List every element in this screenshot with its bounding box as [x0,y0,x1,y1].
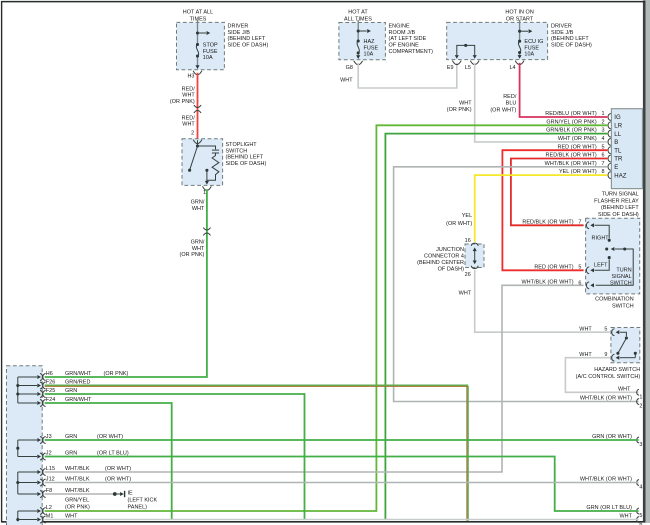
wire: WHT/BLK F8 to ground IE [45,493,114,495]
svg-text:DRIVER: DRIVER [228,24,249,30]
svg-text:COMPARTMENT): COMPARTMENT) [389,49,434,55]
svg-text:GRN (OR WHT): GRN (OR WHT) [592,434,632,440]
svg-text:(OR WHT): (OR WHT) [446,221,472,227]
node: bus bracket L15-F8 [16,472,19,494]
svg-text:(BEHIND LEFT: (BEHIND LEFT [551,36,589,42]
switch: hazard switch [576,328,641,381]
svg-text:HAZ: HAZ [614,173,627,179]
connector: junction connector 4 [417,244,484,272]
svg-text:3: 3 [639,442,642,448]
pin J12 [18,477,131,486]
svg-text:COMBINATION: COMBINATION [595,297,634,303]
svg-text:IG: IG [614,115,621,121]
facing page pin 4 [637,480,643,491]
svg-text:DRIVER: DRIVER [551,24,572,30]
svg-text:SWITCH: SWITCH [610,281,632,287]
wire: ECU IG fuse feed inside J/B [519,20,521,58]
svg-text:WHT/BLK (OR WHT): WHT/BLK (OR WHT) [580,477,632,483]
svg-text:(BEHIND LEFT: (BEHIND LEFT [226,155,264,161]
svg-text:HAZ: HAZ [364,39,376,45]
svg-text:G8: G8 [346,65,353,71]
wire: GRN (OR WHT) J3 to facing page pin 3 [45,434,639,440]
pin 26 of junction connector 4 [465,266,479,279]
pin J2 [18,451,129,460]
wire: WHT/BLK (OR WHT) turn signal switch pin 6 to L15 [45,279,584,472]
svg-text:(BEHIND CENTER: (BEHIND CENTER [417,260,464,266]
node: pass-through arrow inside junction connector 4 [473,247,477,264]
switch: stoplight switch [182,139,266,186]
svg-text:(BEHIND LEFT: (BEHIND LEFT [601,205,639,211]
pin 5 of hazard switch [604,326,628,339]
wire: GRN (OR LT BLU) J2 to facing page pin 5 [45,457,639,512]
svg-text:SIDE OF DASH): SIDE OF DASH) [598,212,639,218]
svg-text:ENGINE: ENGINE [389,24,410,30]
wire: RED (OR WHT) flasher pin 5 to turn signal switch pin 5 [502,150,607,270]
connector block: instrument panel connectors (left) [7,366,43,525]
node: switch arm inside hazard switch [616,338,636,358]
svg-text:RED/: RED/ [503,94,517,100]
pin 9 of hazard switch [579,352,635,361]
svg-text:WHT: WHT [192,206,205,212]
svg-text:WHT/BLK: WHT/BLK [65,466,90,472]
svg-text:(LEFT KICK: (LEFT KICK [128,497,158,503]
svg-text:10A: 10A [524,52,534,58]
svg-text:SIDE J/B: SIDE J/B [228,30,251,36]
svg-text:OF ENGINE: OF ENGINE [389,43,420,49]
svg-text:IE: IE [128,490,134,496]
pin 6 of turn signal switch [578,280,594,288]
svg-text:HAZARD SWITCH: HAZARD SWITCH [594,367,640,373]
node: bus bracket J3-J2 [16,440,19,457]
wire: GRN/WHT from stoplight switch to H6 [45,189,207,377]
svg-text:2: 2 [191,130,194,136]
svg-text:SIDE OF DASH): SIDE OF DASH) [228,43,269,49]
wire: WHT M1 to facing page pin 6 [45,514,639,520]
pin L15 [18,466,131,475]
svg-text:STOPLIGHT: STOPLIGHT [226,142,258,148]
node: bus bracket L2-M1 [16,511,19,521]
wire: WHT hazard switch pin 9 to facing page pin 1 [565,358,638,393]
svg-text:SIDE OF DASH): SIDE OF DASH) [551,43,592,49]
svg-text:WHT/BLK (OR WHT): WHT/BLK (OR WHT) [580,396,632,402]
svg-text:WHT (OR PNK): WHT (OR PNK) [558,136,597,142]
pin M1 [18,514,78,523]
svg-text:WHT: WHT [65,514,78,520]
node: branch arrow inside J/B [518,29,532,33]
node: branch arrow inside J/B [357,29,371,33]
svg-text:(OR PNK): (OR PNK) [447,107,472,113]
svg-text:WHT/BLK (OR WHT): WHT/BLK (OR WHT) [521,279,573,285]
svg-text:GRN/YEL: GRN/YEL [65,498,89,504]
svg-text:SIDE J/B: SIDE J/B [551,30,574,36]
svg-text:10A: 10A [203,55,213,61]
svg-text:WHT: WHT [619,514,632,520]
svg-text:(OR PNK): (OR PNK) [180,252,205,258]
pin F25 [18,388,77,397]
svg-text:(OR WHT): (OR WHT) [105,466,131,472]
pin 1 of flasher relay [545,111,611,120]
svg-text:H6: H6 [46,371,53,377]
pin F24 [18,397,92,406]
pin E9 [447,55,461,71]
svg-text:CONNECTOR 4: CONNECTOR 4 [424,254,464,260]
svg-text:H3: H3 [187,74,194,80]
facing page pin 5 [637,508,643,519]
svg-text:RIGHT: RIGHT [592,235,610,241]
svg-text:6: 6 [639,522,642,525]
svg-text:5: 5 [604,326,607,332]
svg-text:(A/C CONTROL SWITCH): (A/C CONTROL SWITCH) [576,374,641,380]
svg-text:RED/BLU (OR WHT): RED/BLU (OR WHT) [545,111,597,117]
svg-text:SWITCH: SWITCH [612,304,634,310]
svg-text:E9: E9 [447,65,454,71]
pin 2 of flasher relay [546,119,610,128]
svg-text:7: 7 [578,219,581,225]
facing page pin 2 [637,399,643,410]
svg-text:FLASHER RELAY: FLASHER RELAY [594,198,639,204]
svg-text:FUSE: FUSE [524,45,539,51]
svg-text:1: 1 [602,111,605,117]
svg-text:WHT: WHT [459,101,472,107]
svg-text:SIGNAL: SIGNAL [611,274,631,280]
svg-text:(OR PNK): (OR PNK) [65,505,90,511]
svg-text:SIDE OF DASH): SIDE OF DASH) [226,161,267,167]
svg-text:HOT AT: HOT AT [348,10,368,16]
facing page pin 6 [637,517,643,525]
svg-text:LL: LL [614,132,621,138]
pin H3 [187,65,201,79]
pin L4 [509,55,524,71]
node: bus bracket H6-F24 [16,377,19,403]
pin L2 [18,498,90,515]
svg-text:L4: L4 [509,65,515,71]
wire: haz fuse feed inside J/B [357,20,359,58]
pin F8 [18,488,90,497]
relay: turn signal flasher relay [594,109,642,218]
svg-text:GRN/: GRN/ [191,239,205,245]
pin 3 of flasher relay [546,128,611,137]
pin 1 exit of stoplight switch [203,181,212,196]
switch: turn signal switch / combination switch [586,218,640,309]
wire: YEL (OR WHT) flasher pin 8 to junction connector pin 16 [446,175,607,242]
svg-text:WHT: WHT [182,93,195,99]
node: switch arm inside turn signal switch [596,247,634,285]
pin H6 [18,371,129,380]
wire: GRN from F25 off page bottom [45,394,305,520]
svg-text:ROOM J/B: ROOM J/B [389,30,416,36]
pin J3 [18,434,123,443]
svg-text:STOP: STOP [203,43,218,49]
facing page pin 3 [637,437,643,448]
svg-text:WHT: WHT [192,246,205,252]
svg-text:TURN: TURN [616,268,631,274]
svg-text:1: 1 [203,190,206,196]
wire: WHT from G8 to E9 [340,63,457,88]
junction block: driver side J/B with stop fuse [177,10,269,70]
svg-text:ECU IG: ECU IG [524,39,543,45]
ground: IE left kick panel [113,490,158,510]
wire: WHT (OR PNK) from L5 to flasher pin 4 [447,63,608,142]
node: E9/L5 bridge [457,44,475,55]
svg-text:TL: TL [614,148,622,154]
svg-text:WHT: WHT [459,290,472,296]
svg-text:L15: L15 [46,466,55,472]
svg-text:HOT IN ON: HOT IN ON [505,10,533,16]
svg-text:(OR PNK): (OR PNK) [104,371,129,377]
svg-text:E: E [614,165,618,171]
svg-text:16: 16 [465,238,471,244]
wire: stop fuse feed inside J/B [197,20,199,68]
svg-text:FUSE: FUSE [364,45,379,51]
wire: GRN/YEL (OR PNK) flasher pin 2 to L2 [45,125,608,511]
svg-text:WHT: WHT [182,122,195,128]
svg-text:(AT LEFT SIDE: (AT LEFT SIDE [389,36,427,42]
wire: WHT/BLK (OR WHT) flasher pin 7 to facing page pin 2 [394,167,639,402]
svg-text:WHT: WHT [340,78,353,84]
svg-text:1: 1 [639,394,642,400]
pin G8 [346,55,363,71]
svg-text:RED (OR WHT): RED (OR WHT) [534,264,573,270]
wire: GRN/RED from F26 off page bottom [45,385,469,521]
svg-text:5: 5 [639,513,642,519]
svg-text:10A: 10A [364,52,374,58]
svg-text:OF DASH): OF DASH) [438,266,465,272]
pin 4 of flasher relay [558,136,611,145]
svg-text:(OR PNK): (OR PNK) [170,99,195,105]
pin 2 entry of stoplight switch [193,140,202,144]
svg-text:RED/: RED/ [182,116,196,122]
stoplight switch internals [188,140,219,184]
svg-text:JUNCTION: JUNCTION [436,247,464,253]
connector: in-line splice on GRN/WHT [203,228,210,236]
svg-text:GRN (OR LT BLU): GRN (OR LT BLU) [586,505,632,511]
svg-text:FUSE: FUSE [203,49,218,55]
wire: WHT from junction connector pin 26 to hazard switch pin 5 [459,270,610,333]
svg-text:SWITCH: SWITCH [226,148,248,154]
svg-text:HOT AT ALL: HOT AT ALL [183,10,213,16]
facing page pin 1 [637,389,643,400]
fuse: ECU IG FUSE 10A [518,39,543,58]
svg-text:BLU: BLU [506,100,517,106]
svg-text:GRN/WHT: GRN/WHT [65,371,92,377]
wire: WHT/BLK (OR WHT) J12 to facing page pin 4 [45,477,639,483]
svg-text:WHT: WHT [579,326,592,332]
svg-text:WHT: WHT [618,386,631,392]
fuse: STOP FUSE 10A [196,43,218,62]
connector: in-line splice on RED/WHT [194,105,201,113]
svg-text:B: B [614,140,618,146]
pin 8 of flasher relay [559,169,611,178]
junction block: driver side J/B with ECU IG fuse [447,10,592,60]
pin F26 [18,380,91,389]
svg-text:(BEHIND LEFT: (BEHIND LEFT [228,36,266,42]
svg-text:5: 5 [578,264,581,270]
svg-text:M1: M1 [46,514,54,520]
svg-text:4: 4 [602,136,605,142]
svg-text:2: 2 [639,404,642,410]
svg-text:TURN SIGNAL: TURN SIGNAL [602,192,639,198]
pin L5 [465,55,479,71]
wire: RED/BLK (OR WHT) flasher pin 6 to turn signal switch pin 7 [511,159,607,226]
pin 5 of turn signal switch [578,256,610,274]
svg-text:YEL: YEL [462,213,472,219]
fuse: HAZ FUSE 10A [357,39,379,58]
svg-text:L5: L5 [465,65,471,71]
svg-text:LEFT: LEFT [594,262,608,268]
wire: RED/BLU (OR WHT) from L4 to flasher pin 1 [490,63,607,117]
pin 7 of flasher relay [545,161,611,170]
svg-text:TR: TR [614,157,623,163]
svg-text:26: 26 [465,272,471,278]
svg-text:RED/: RED/ [182,87,196,93]
pin 5 of flasher relay [558,144,611,153]
svg-text:LR: LR [614,124,622,130]
pin 16 of junction connector 4 [465,238,479,246]
wire: GRN/WHT from F24 off page bottom [45,403,172,520]
pin 6 of flasher relay [546,153,611,162]
pin 7 of turn signal switch [578,219,610,241]
node: branch arrow inside J/B [196,31,210,35]
svg-text:4: 4 [639,485,642,491]
svg-text:(OR WHT): (OR WHT) [490,107,516,113]
svg-text:GRN/: GRN/ [191,199,205,205]
junction block: engine room J/B with haz fuse [339,10,433,60]
svg-text:RED/BLK (OR WHT): RED/BLK (OR WHT) [522,219,573,225]
svg-text:L2: L2 [46,505,52,511]
wire: RED/WHT from H3 to stoplight switch pin 2 [170,73,198,140]
wire: GRN/BLK (OR PNK) flasher pin 3 down [385,134,607,520]
svg-text:PANEL): PANEL) [128,504,148,510]
